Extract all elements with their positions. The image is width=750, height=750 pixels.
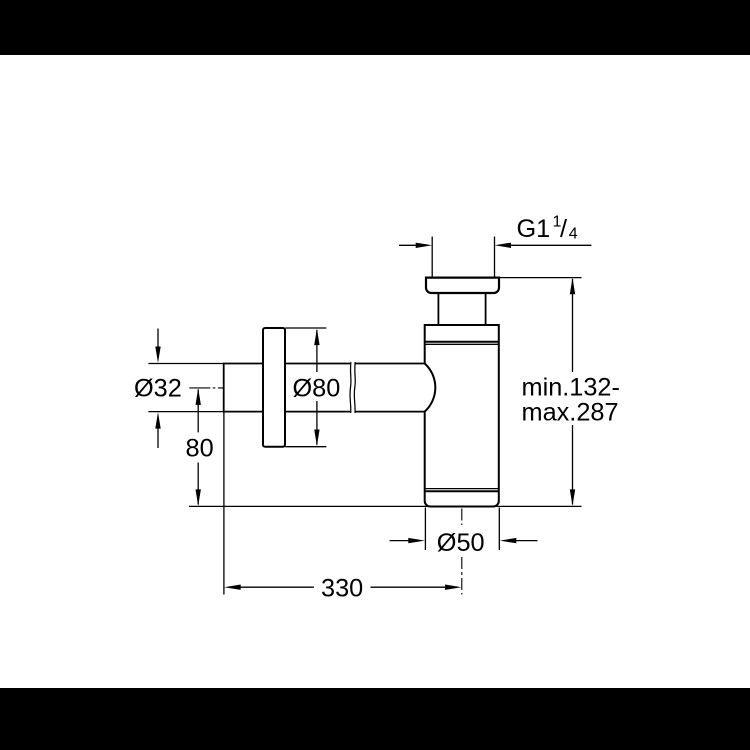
dim min/max lower segment (572, 425, 574, 505)
dim 330 right line (371, 586, 447, 588)
extension line: G1 left (431, 237, 433, 278)
bottle body with inlet bulge arc on left (425, 325, 499, 507)
svg-text:Ø32: Ø32 (134, 375, 182, 403)
extension line: disc top right (dim 80 disc) (285, 327, 326, 329)
dim Ø80 lower segment (316, 401, 318, 445)
dim 330 left arrowhead (224, 585, 241, 590)
bottom black letterbox band (0, 688, 750, 750)
dim 80 upper segment (197, 390, 199, 433)
bottle body top joint line (425, 343, 499, 345)
pipe left end (223, 363, 225, 413)
svg-text:330: 330 (321, 575, 363, 603)
dim 80 lower segment (197, 463, 199, 505)
extension line: cap right below (dim 50) (498, 508, 500, 551)
pipe break mark left (349, 362, 352, 413)
bottle top flange (426, 278, 499, 293)
bottle bottom cap top edge (425, 490, 499, 492)
wire: pipe bottom edge (224, 411, 425, 413)
dim Ø32 upper arrowhead (155, 347, 160, 364)
pipe break mark right (353, 362, 356, 413)
dim min/max lower arrowhead (570, 489, 575, 506)
extension line: cap left below (dim 50) (424, 508, 426, 551)
extension line: disc bottom right (dim 80 disc) (285, 446, 326, 448)
dim 80 upper arrowhead (196, 388, 201, 405)
svg-text:G1: G1 (517, 215, 551, 243)
dim Ø50 right line (515, 540, 538, 542)
dim G1 left arrowhead (416, 243, 433, 248)
svg-text:4: 4 (569, 225, 578, 242)
extension line: pipe bottom to left (dim 32) (148, 411, 223, 413)
bottle neck right (485, 294, 487, 325)
extension line: G1 right (494, 237, 496, 278)
dim min/max upper arrowhead (570, 278, 575, 295)
dim G1 left line (399, 244, 417, 246)
bottle body bottom joint line (425, 488, 499, 490)
dim Ø80 upper segment (316, 330, 318, 372)
bottle nut ring lower edge (425, 341, 499, 343)
dim Ø80 lower arrowhead (314, 430, 319, 447)
extension line: flange top to right (min/max) (499, 277, 581, 279)
centerline of pipe (dash-dot) (189, 387, 223, 389)
dim Ø50 left line (390, 540, 410, 542)
svg-text:min.132-: min.132- (522, 373, 620, 401)
bottle neck left (437, 294, 439, 325)
dim Ø80 upper arrowhead (314, 329, 319, 346)
dim G1 right arrowhead (495, 243, 512, 248)
extension line: pipe end down (dim 330) (223, 413, 225, 595)
centerline of bottle below (dash-dot) (461, 509, 463, 595)
dim Ø32 lower arrowhead (155, 412, 160, 429)
wall flange disc (263, 328, 285, 447)
svg-text:Ø50: Ø50 (437, 529, 485, 557)
svg-text:max.287: max.287 (522, 399, 619, 427)
extension line: bottle bottom level (long, left to right) (189, 505, 582, 507)
extension line: pipe top to left (dim 32) (148, 363, 223, 365)
dim 330 left line (240, 586, 314, 588)
dim Ø32 lower arrow shaft (157, 427, 159, 448)
svg-text:Ø80: Ø80 (293, 375, 341, 403)
dim Ø32 upper arrow shaft (157, 329, 159, 349)
dim 80 lower arrowhead (196, 489, 201, 506)
dim min/max upper segment (572, 279, 574, 372)
dim Ø50 right arrowhead (500, 538, 517, 543)
dim G1 right line (510, 244, 591, 246)
svg-text:80: 80 (186, 435, 214, 463)
dim 330 right arrowhead (445, 585, 462, 590)
top black letterbox band (0, 0, 750, 55)
wire: pipe top edge (224, 363, 425, 365)
svg-text:/: / (560, 215, 568, 243)
dim Ø50 left arrowhead (408, 538, 425, 543)
